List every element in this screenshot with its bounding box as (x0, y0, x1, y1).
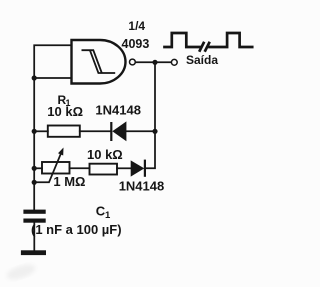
svg-text:Saída: Saída (186, 53, 218, 67)
svg-text:1/4: 1/4 (128, 19, 145, 33)
svg-text:1 MΩ: 1 MΩ (53, 174, 85, 189)
svg-text:(1 nF a 100 µF): (1 nF a 100 µF) (31, 222, 122, 237)
svg-text:4093: 4093 (122, 37, 150, 51)
svg-text:1N4148: 1N4148 (95, 102, 141, 117)
svg-text:10 kΩ: 10 kΩ (87, 147, 123, 162)
svg-text:10 kΩ: 10 kΩ (47, 104, 83, 119)
svg-text:1: 1 (105, 210, 111, 221)
svg-text:1N4148: 1N4148 (119, 179, 165, 194)
